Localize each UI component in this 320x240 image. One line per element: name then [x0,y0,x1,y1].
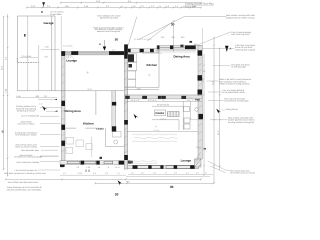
notes right column [219,14,259,124]
svg-text:90: 90 [58,13,60,16]
house B top wall left part [128,49,159,53]
svg-text:Hall: Hall [195,98,200,101]
arrow marker bottom [118,180,122,185]
svg-text:Wing (Store): Wing (Store) [226,108,238,111]
svg-text:Kitchen: Kitchen [147,63,158,67]
dim line top T2 [61,2,202,4]
dim text above wall A [63,45,115,52]
garage door dashed line [18,61,39,63]
house B right wall band [198,46,202,160]
svg-text:1.3 .8: 1.3 .8 [115,166,121,169]
svg-text:30: 30 [171,23,175,27]
svg-text:existing windows throughout: existing windows throughout [228,121,255,124]
party wall band [124,45,128,170]
house A left wall black piers [60,51,65,167]
fireplace B [128,161,133,164]
svg-text:Cooks: Cooks [155,111,164,115]
dim line left margin inner [7,14,9,176]
house B interior vline hall/lounge [190,101,192,119]
svg-text:New inspection chamber: New inspection chamber [17,161,40,164]
house A left wall band [61,51,65,160]
bottom right tiny note [230,170,256,175]
dim line top T1 [27,7,201,9]
long dim line 1 [6,178,202,180]
lounge B floor squiggles [130,134,178,164]
house A bottom windows [67,161,113,164]
svg-text:to side passage: to side passage [231,66,246,69]
house B top wall step [156,46,158,53]
house A interior wall vertical [95,91,97,115]
svg-text:1.4m: 1.4m [16,95,21,98]
svg-text:frame to match existing: frame to match existing [15,146,37,149]
svg-text:1.2: 1.2 [112,48,115,51]
svg-text:bricked up to match: bricked up to match [17,110,36,113]
house A top wall black segments [61,51,125,55]
svg-text:adjacent work throughout: adjacent work throughout [97,30,121,33]
ticks bottom lines [5,178,214,184]
svg-text:New rainwater pipe: New rainwater pipe [21,149,40,152]
house B right wall piers [198,50,204,119]
svg-text:4.1c: 4.1c [39,102,43,105]
svg-text:30: 30 [170,185,174,189]
left margin ticks [3,16,9,176]
svg-text:Garage: Garage [44,21,54,25]
cursor arrow left [42,106,47,111]
svg-text:30: 30 [115,38,119,42]
house B bottom piers [133,165,195,169]
dashed line at driveway B [134,38,152,40]
diag leader D2 [147,20,175,41]
svg-text:render to match existing prope: render to match existing property [219,83,250,86]
right margin ticks [203,45,220,184]
stairs box [155,110,180,117]
svg-text:Line of existing drain run: Line of existing drain run [15,169,38,172]
svg-text:2.2 1.0 .8: 2.2 1.0 .8 [148,99,157,102]
svg-text:Cloaks: Cloaks [96,127,105,130]
svg-text:wall 1.8m high brick: wall 1.8m high brick [231,33,250,36]
window dim line above house B [157,49,196,51]
note leaders left [40,108,61,157]
door arc lounge A [68,55,74,61]
cursor arrow mid [134,114,139,119]
svg-text:2.3 1.2: 2.3 1.2 [145,51,151,54]
vert dim line above B [172,26,174,52]
hatched corner pier [195,159,202,167]
corner diagonal leader [195,153,201,161]
svg-text:New 100mm dia drain laid to fa: New 100mm dia drain laid to falls [8,181,39,184]
rotated dim text right [201,77,220,135]
svg-text:dashed this position: dashed this position [100,16,119,19]
mid wall tiny dims [131,99,191,102]
svg-text:roof over to match: roof over to match [18,123,36,126]
svg-text:New drain connection to existi: New drain connection to existing system … [4,172,47,175]
house A right wall piers [112,102,116,132]
svg-text:Lounge: Lounge [66,58,77,62]
long dim line 2 [95,182,214,184]
svg-text:2.0 x 5.5m: 2.0 x 5.5m [22,55,32,58]
house A left wall hatches [61,58,65,153]
svg-text:dropped kerb: dropped kerb [50,13,63,16]
section marker C arrow [42,2,45,6]
garage lower dim row [16,97,57,99]
svg-text:1.8m: 1.8m [196,146,201,149]
house A mid hline (garage bottom + lounge floor) [18,90,126,92]
house B right wall hatches [198,57,202,150]
kitchen B units [128,54,137,87]
house B interior vline kitchen/dining [158,49,160,88]
kitchen B hline [125,86,159,88]
svg-text:laid to falls away from house: laid to falls away from house [230,172,255,175]
garage dim arrows mid [20,57,39,59]
svg-text:A: A [230,48,232,51]
bottom-left note leaders [38,150,60,170]
diag leader D1 [138,17,226,40]
bottom dim row B [128,173,213,175]
svg-text:connected to existing drain: connected to existing drain [224,100,250,103]
dim labels above T1 [31,0,197,8]
house B bottom windows [137,166,190,169]
svg-text:Line of existing wall: Line of existing wall [21,115,40,118]
bottom dim row A (two rows) [61,166,121,175]
house B top wall right part [157,46,202,50]
dark dim blobs above B wall [180,45,183,48]
svg-text:30: 30 [115,193,119,197]
boundary line above house B right corner [201,28,203,46]
svg-text:188: 188 [194,43,197,46]
svg-text:retaining wall to garden: retaining wall to garden [235,48,255,51]
right margin dim vlines [204,37,220,184]
dim ticks T1 [26,2,202,9]
garage small black mark [24,34,26,37]
svg-text:Kitchen: Kitchen [83,122,94,126]
window dim ticks under top wall B [142,52,162,54]
party wall black piers [124,45,128,161]
small tick blob right wall [204,148,207,150]
lounge B upper hline [126,131,198,133]
note leaders right [197,32,235,120]
section marker A right arrow [225,46,229,52]
svg-text:scale 1:100: scale 1:100 [185,5,196,8]
svg-text:to be demolished shown: to be demolished shown [222,91,245,94]
boundary line above house A [60,16,62,51]
bottom-left notes [4,149,47,191]
bathroom fixtures B [152,101,202,130]
svg-text:1.0 2.4: 1.0 2.4 [160,117,166,120]
note line of existing (top-left small text) [50,11,63,16]
svg-text:90 600 900 90: 90 600 900 90 [157,104,169,107]
section marker A arrow (top wall) [103,47,107,51]
house A bottom wall band [60,161,126,165]
cursor arrow right [216,109,221,114]
garage width dim line [41,48,60,50]
house B mid wall band [125,96,202,99]
bottom right diagonal leaders [208,161,230,173]
house A top wall band [61,51,125,55]
svg-text:dropped kerb to match existing: dropped kerb to match existing [226,16,255,19]
rotated dim text left [1,56,8,93]
svg-text:Dining Area: Dining Area [174,55,191,59]
house A top windows [65,52,109,54]
hline under row B [126,176,210,178]
svg-text:2.1 3.4: 2.1 3.4 [154,129,160,132]
svg-text:A: A [99,43,101,46]
dim line left margin outer [3,17,5,171]
house A right wall band [112,91,116,131]
svg-text:ex 2.44 min: ex 2.44 min [63,45,73,48]
svg-text:relevant specifications and sc: relevant specifications and schedules [7,188,41,191]
party wall hatches [124,62,128,154]
notes left column [15,105,40,157]
faint cross marks [87,71,157,127]
garage outline [18,16,56,91]
text block top middle [93,15,124,33]
kitchen A fixtures [66,137,92,158]
svg-text:Lounge: Lounge [181,158,192,162]
door arc hall [161,96,166,101]
house A interior wall horizontal [65,127,96,129]
house B bottom wall band [128,165,199,169]
svg-text:Dining Area: Dining Area [65,109,82,113]
house A bottom black pier [119,161,126,165]
svg-text:connected to existing drainage: connected to existing drainage [14,155,43,158]
svg-text:B: B [2,130,4,134]
chimney block [128,54,134,62]
title text top right [185,3,214,9]
svg-text:1.0 2.1 .9: 1.0 2.1 .9 [131,99,140,102]
svg-text:be bricked up to match: be bricked up to match [15,134,37,137]
